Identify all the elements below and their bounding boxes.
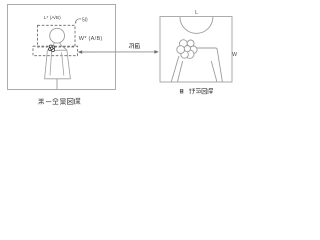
right outer torso line bbox=[67, 50, 71, 79]
small dark corsage flower on chest bbox=[49, 45, 55, 52]
label 50 with leader hook to head box corner bbox=[75, 17, 88, 23]
caption 1: 第一全景图像 (pseudo-glyphs) bbox=[39, 98, 81, 104]
left inner arm line bbox=[50, 52, 52, 76]
图 bbox=[202, 89, 207, 94]
left panel border (first panoramic image frame) bbox=[8, 5, 116, 90]
dress hem bbox=[44, 78, 70, 80]
close-up flower (outline petals) bbox=[177, 40, 197, 59]
left torso line bbox=[171, 56, 179, 82]
right chest / shoulder line bbox=[197, 48, 223, 82]
景 bbox=[60, 99, 66, 105]
neck bbox=[53, 43, 61, 45]
inner left sleeve line bbox=[178, 61, 183, 82]
svg-text:L* (A/B): L* (A/B) bbox=[44, 15, 61, 21]
第 bbox=[39, 99, 44, 105]
small first glyph bbox=[180, 89, 183, 93]
全 bbox=[53, 98, 59, 104]
left outer torso line bbox=[45, 50, 48, 79]
right panel border (close-up image frame) bbox=[160, 17, 232, 83]
correspondence double-headed arrow bbox=[78, 50, 159, 54]
像 bbox=[208, 88, 213, 94]
图 bbox=[67, 99, 73, 105]
dashed chest ROI box (close-up source region) bbox=[33, 46, 78, 56]
像 bbox=[75, 98, 81, 104]
svg-text:W* (A/B): W* (A/B) bbox=[79, 36, 103, 42]
leg / stand line to panel bottom bbox=[56, 79, 58, 90]
应 bbox=[135, 44, 140, 49]
neckline semicircle bbox=[180, 17, 213, 34]
一 bbox=[46, 101, 52, 103]
对 bbox=[129, 43, 134, 48]
head circle of person bbox=[50, 28, 65, 43]
svg-text:L: L bbox=[195, 10, 198, 16]
写 bbox=[196, 89, 201, 93]
chest line bbox=[50, 49, 67, 51]
dashed head ROI box (labeled 50) bbox=[38, 25, 76, 47]
inner right sleeve line bbox=[211, 61, 217, 82]
correspondence text 对应 (pseudo-glyphs) bbox=[129, 43, 140, 48]
特 bbox=[189, 88, 195, 94]
caption 2: 图 特写图像 (pseudo-glyphs) bbox=[180, 88, 213, 94]
svg-text:50: 50 bbox=[82, 17, 88, 23]
svg-text:W: W bbox=[232, 52, 237, 58]
shoulders bbox=[47, 45, 67, 50]
right inner arm line bbox=[62, 52, 64, 75]
